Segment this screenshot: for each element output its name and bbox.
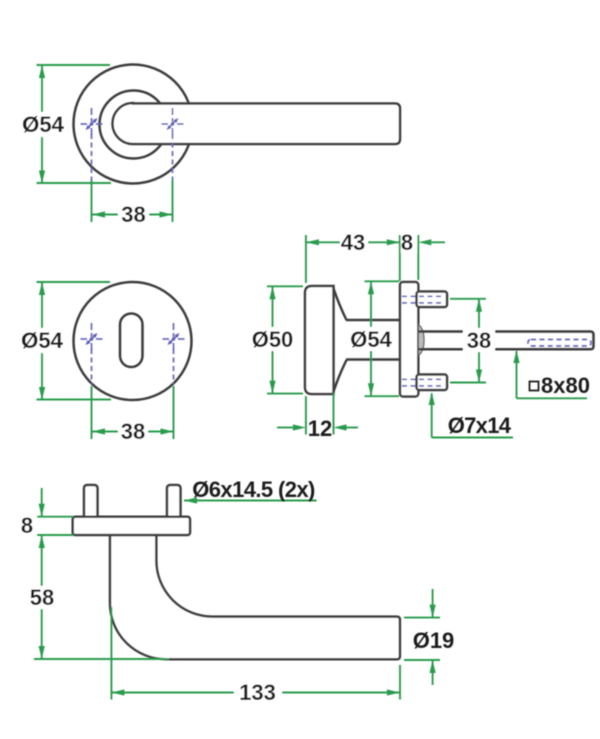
svg-text:43: 43 bbox=[341, 230, 365, 255]
svg-text:8: 8 bbox=[401, 230, 413, 255]
svg-text:38: 38 bbox=[121, 419, 145, 444]
svg-text:133: 133 bbox=[239, 680, 276, 705]
svg-text:Ø54: Ø54 bbox=[350, 327, 392, 352]
svg-text:Ø19: Ø19 bbox=[413, 628, 455, 653]
svg-text:Ø54: Ø54 bbox=[21, 328, 63, 353]
svg-text:Ø50: Ø50 bbox=[252, 327, 294, 352]
svg-text:8: 8 bbox=[21, 513, 33, 538]
svg-text:58: 58 bbox=[30, 585, 54, 610]
svg-text:38: 38 bbox=[121, 202, 145, 227]
svg-text:Ø54: Ø54 bbox=[22, 112, 64, 137]
svg-text:Ø6x14.5 (2x): Ø6x14.5 (2x) bbox=[192, 477, 315, 502]
svg-text:12: 12 bbox=[308, 416, 332, 441]
svg-text:38: 38 bbox=[467, 328, 491, 353]
svg-text:8x80: 8x80 bbox=[541, 373, 590, 398]
svg-text:Ø7x14: Ø7x14 bbox=[448, 413, 512, 438]
